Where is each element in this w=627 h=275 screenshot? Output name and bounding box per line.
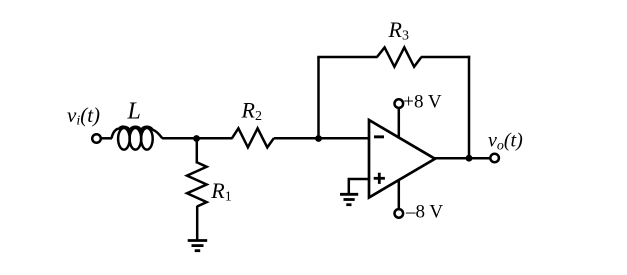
- wire node B to op-amp inverting input: [319, 137, 370, 140]
- output node junction dot: [466, 155, 473, 162]
- wire feedback top left segment: [317, 56, 377, 59]
- svg-text:vo(t): vo(t): [488, 130, 523, 154]
- wire feedback top right segment: [421, 56, 470, 59]
- wire inductor to node A: [162, 137, 197, 140]
- svg-text:L: L: [127, 99, 141, 125]
- resistor R3: [377, 47, 421, 66]
- op-amp U1: [369, 120, 435, 198]
- svg-text:–8 V: –8 V: [405, 201, 443, 222]
- svg-text:vi(t): vi(t): [67, 103, 100, 129]
- op-amp non-inverting input symbol: [374, 173, 385, 184]
- ground at op-amp non-inverting input: [340, 194, 358, 204]
- output terminal: [490, 154, 499, 163]
- op-amp inverting input symbol: [374, 135, 384, 138]
- +8 V supply terminal: [395, 99, 404, 108]
- wire R1 to ground: [196, 206, 199, 240]
- wire op-amp non-inverting input to ground: [349, 179, 369, 194]
- wire op-amp output: [434, 157, 490, 160]
- svg-text:+8 V: +8 V: [403, 92, 442, 113]
- resistor R1: [187, 162, 207, 206]
- resistor R2: [232, 128, 274, 147]
- input terminal: [92, 134, 101, 143]
- wire node A down to R1: [196, 138, 199, 163]
- wire R2 to node B: [274, 137, 319, 140]
- wire input terminal to inductor: [101, 137, 112, 140]
- wire node B up to feedback: [317, 57, 320, 139]
- node A junction dot: [193, 135, 200, 142]
- wire op-amp to -8 V supply: [398, 180, 401, 209]
- svg-text:R3: R3: [388, 17, 409, 44]
- -8 V supply terminal: [395, 209, 404, 218]
- ground below R1: [188, 241, 208, 251]
- node B junction dot: [315, 135, 322, 142]
- wire node A to R2: [197, 137, 233, 140]
- wire feedback down to output node: [468, 56, 471, 158]
- svg-text:R2: R2: [241, 98, 262, 125]
- inductor L: [112, 127, 163, 150]
- svg-text:R1: R1: [210, 178, 231, 205]
- wire +8 V supply to op-amp: [398, 108, 401, 138]
